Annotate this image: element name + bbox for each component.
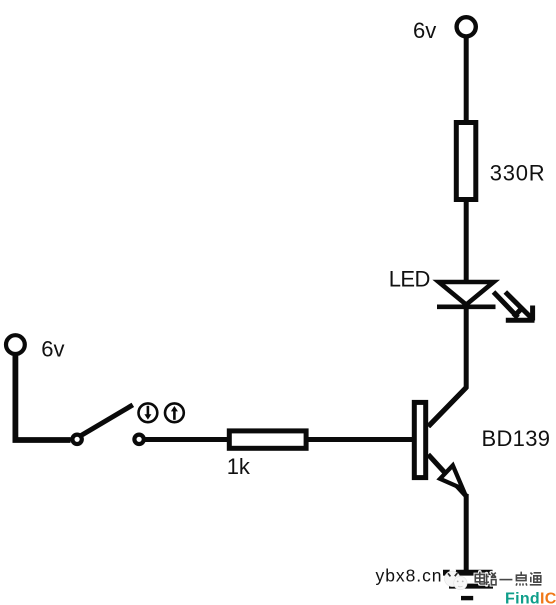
svg-text:BD139: BD139 <box>482 426 551 451</box>
LED D1 <box>437 282 496 307</box>
svg-text:1k: 1k <box>227 454 251 479</box>
resistor R2 1k <box>229 431 306 448</box>
LED light arrow 2 <box>505 292 532 321</box>
resistor R1 330R <box>456 123 476 200</box>
terminal T1 6v (top right) <box>457 17 476 36</box>
wire resistor to base <box>306 437 414 442</box>
wire LED to transistor collector <box>429 307 467 427</box>
wire resistor to LED <box>464 200 469 284</box>
ground <box>443 573 493 598</box>
svg-text:6v: 6v <box>413 18 436 43</box>
svg-text:FindIC: FindIC <box>505 591 556 605</box>
svg-text:LED: LED <box>389 266 430 291</box>
svg-text:330R: 330R <box>490 161 546 186</box>
svg-text:6v: 6v <box>41 336 64 361</box>
wire left terminal down and right <box>15 354 70 440</box>
watermark logo circles <box>445 568 468 589</box>
wire terminal to resistor <box>464 37 469 123</box>
switch action icon: up arrow in circle <box>165 403 184 422</box>
switch SW1 <box>72 405 143 444</box>
transistor Q1 BD139 <box>414 402 466 496</box>
watermark 电路一点通 (hand-drawn) <box>475 572 541 586</box>
svg-text:ybx8.cn: ybx8.cn <box>376 566 443 586</box>
switch action icon: down arrow in circle <box>139 403 158 422</box>
terminal T2 6v (left) <box>6 335 25 354</box>
LED light arrow 1 <box>494 292 535 320</box>
transistor collector lead <box>428 388 466 427</box>
wire switch to resistor <box>144 437 230 442</box>
wire emitter to ground <box>464 494 469 573</box>
